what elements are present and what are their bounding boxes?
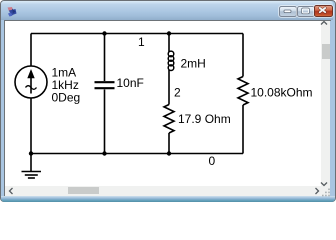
wire left branch bottom — [30, 98, 32, 154]
maximize button — [297, 6, 315, 17]
scrollbar left arrow — [7, 186, 15, 196]
svg-text:17.9 Ohm: 17.9 Ohm — [178, 112, 231, 126]
svg-text:2: 2 — [174, 85, 181, 99]
junction top inductor — [167, 31, 171, 35]
window icon — [6, 6, 18, 18]
resistor R1 10.08kOhm — [238, 77, 248, 105]
svg-text:10.08kOhm: 10.08kOhm — [251, 86, 313, 100]
inductor L1 2mH — [168, 51, 174, 70]
current source I1 — [15, 66, 47, 98]
wire bottom rail — [31, 153, 243, 155]
svg-text:2mH: 2mH — [181, 57, 206, 71]
svg-text:0: 0 — [209, 154, 216, 168]
svg-text:1: 1 — [138, 35, 145, 49]
wire inductor to resistor R2 — [168, 70, 170, 105]
resize grip — [320, 185, 332, 197]
wire resistor R2 bottom — [168, 133, 170, 154]
wire right branch top — [242, 34, 244, 77]
capacitor C1 10nF — [95, 82, 115, 88]
wire top rail — [31, 33, 243, 35]
scrollbar down arrow — [319, 180, 329, 188]
scrollbar up arrow — [319, 19, 329, 27]
junction top capacitor — [102, 31, 106, 35]
wire inductor branch top — [168, 34, 170, 53]
minimize button — [279, 6, 297, 17]
wire capacitor branch bottom — [104, 90, 106, 154]
resistor R2 17.9 Ohm — [164, 105, 174, 133]
junction bottom inductor — [167, 151, 171, 155]
ground — [22, 154, 42, 179]
wire capacitor branch top — [104, 34, 106, 82]
close button — [314, 5, 333, 17]
wire right branch bottom — [242, 105, 244, 154]
svg-text:10nF: 10nF — [117, 76, 144, 90]
scrollbar right arrow — [313, 186, 321, 196]
junction ground — [29, 151, 33, 155]
junction bottom capacitor — [102, 151, 106, 155]
svg-text:0Deg: 0Deg — [52, 91, 81, 105]
wire left branch top — [30, 34, 32, 67]
